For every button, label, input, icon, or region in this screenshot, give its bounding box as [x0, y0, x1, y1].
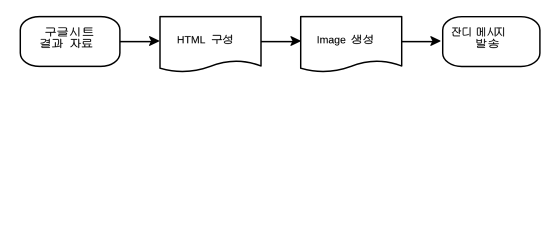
label: Image 생성 (korean part) — [352, 35, 373, 44]
wire: arrow 1 shaft — [120, 41, 152, 43]
arrowhead 1 — [150, 37, 159, 46]
label: Image 생성 (latin part) — [318, 36, 346, 45]
arrowhead 3 — [431, 37, 440, 46]
label line 1: 잔디 메시지 — [452, 27, 504, 36]
terminator rounded-rect: 잔디 메시지 발송 — [443, 17, 540, 67]
label line 1: 구글시트 — [45, 27, 93, 36]
arrowhead 2 — [291, 37, 300, 46]
wire: arrow 3 shaft — [402, 41, 433, 43]
label line 2: 결과 자료 — [41, 39, 93, 48]
terminator rounded-rect: 구글시트 결과 자료 — [20, 17, 120, 67]
document shape: Image 생성 — [301, 17, 402, 72]
document shape: HTML 구성 — [160, 17, 261, 72]
wire: arrow 2 shaft — [261, 41, 293, 43]
label: HTML 구성 (latin part) — [178, 36, 205, 43]
label: HTML 구성 (korean part) — [212, 35, 232, 44]
label line 2: 발송 — [477, 39, 499, 48]
